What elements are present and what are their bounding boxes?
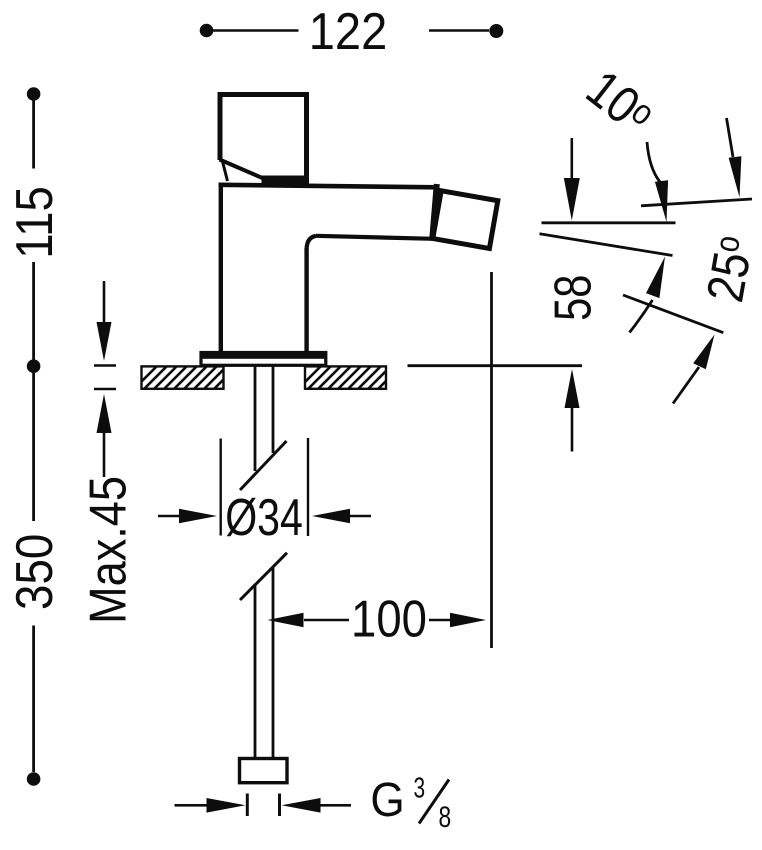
svg-text:G: G	[370, 772, 404, 826]
left dimension chain: segment above 115	[32, 101, 35, 169]
faucet spout end edge	[432, 184, 437, 240]
dimension 122 top: right leader line	[429, 29, 489, 32]
thread label denominator 8	[438, 800, 451, 834]
horizontal datum line at spout tip	[542, 221, 676, 224]
dimension 58: up arrow stem	[571, 408, 574, 452]
angle 10 arc leader	[647, 142, 660, 182]
dimension O34: right arrowhead	[312, 509, 350, 524]
faucet handle outline	[220, 95, 307, 181]
faucet base flange thick top bar	[202, 352, 325, 359]
pipe break slash upper	[240, 441, 287, 490]
dimension 122 top: right dot	[489, 24, 503, 38]
svg-text:350: 350	[7, 534, 64, 610]
dimension G3/8: left line	[175, 804, 208, 807]
dimension G3/8: right line	[320, 804, 351, 807]
dimension G3/8: right tick	[278, 794, 281, 817]
faucet handle lever inner line	[223, 162, 228, 182]
countertop hatched section left	[142, 366, 224, 388]
faucet outlet square	[433, 191, 498, 249]
dimension O34: left arrowhead	[179, 509, 217, 524]
faucet handle bottom thick bar	[262, 176, 310, 184]
svg-text:3: 3	[413, 772, 425, 804]
dimension 58: down arrowhead	[564, 178, 580, 221]
dimension 58: down arrow stem	[570, 138, 573, 180]
svg-text:Max.45: Max.45	[80, 476, 138, 624]
dimension O34: right extension line	[307, 438, 309, 536]
dimension 115 label	[6, 186, 63, 259]
Max.45 label	[80, 476, 138, 624]
angle 25 label	[696, 232, 762, 306]
vertical reference line from spout	[490, 272, 493, 648]
faucet spout bottom edge	[316, 236, 434, 239]
dimension 122 top: left leader line	[213, 29, 299, 32]
supply pipe right line lower segment	[272, 567, 275, 759]
Max.45 dimension: up arrow stem	[103, 433, 106, 477]
svg-text:Ø34: Ø34	[225, 488, 303, 546]
faucet spout corner curve	[307, 236, 316, 249]
svg-text:122: 122	[309, 2, 388, 61]
dimension G3/8: right arrowhead	[282, 798, 321, 813]
thread label numerator 3	[413, 772, 425, 804]
dimension 122 top: left dot	[200, 24, 214, 38]
dimension O34: value label	[225, 488, 303, 546]
supply pipe right line upper segment	[272, 366, 275, 454]
dimension 100: right arrowhead	[450, 613, 486, 628]
Max.45 dimension: down arrowhead	[97, 322, 112, 361]
faucet body top edge	[219, 185, 438, 188]
dimension 100: left arrowhead	[268, 613, 304, 628]
angle 25 lower arrowhead	[693, 335, 714, 370]
svg-text:58: 58	[543, 275, 602, 321]
faucet body right edge	[304, 248, 308, 352]
dimension 100: right line	[429, 619, 451, 622]
svg-text:115: 115	[6, 186, 63, 259]
dimension 100: left line	[304, 619, 349, 622]
left dimension chain: bottom dot	[27, 772, 41, 786]
svg-text:8: 8	[438, 800, 451, 834]
left dimension chain: segment above 350	[32, 373, 35, 521]
supply pipe left line upper segment	[254, 366, 257, 472]
dimension 58: value label	[543, 275, 602, 321]
slanted spout axis line	[540, 234, 673, 256]
angle 25 arc arrowhead	[646, 257, 665, 299]
thread label fraction slash	[419, 780, 449, 824]
upper right leader arrowhead	[729, 156, 742, 197]
angle 10 arrowhead	[655, 180, 668, 222]
dimension O34: left line	[158, 515, 180, 518]
pipe break slash lower	[240, 553, 287, 600]
angle 10 label	[576, 59, 664, 146]
dimension O34: right line	[348, 515, 371, 518]
upper right leader stem	[727, 118, 734, 157]
Max.45 dimension: upper tick	[94, 364, 116, 367]
angle 25 lower arrow stem	[673, 367, 699, 404]
supply pipe left line lower segment	[254, 585, 257, 759]
dimension G3/8: left tick	[246, 794, 249, 817]
dimension 58: up arrowhead	[565, 369, 580, 408]
left dimension chain: middle dot	[27, 359, 41, 373]
dimension O34: left extension line	[219, 439, 221, 536]
Max.45 dimension: up arrowhead	[97, 394, 112, 433]
thread label G	[370, 772, 404, 826]
faucet body left edge	[219, 183, 223, 352]
dimension 122 top: value label	[309, 2, 388, 61]
svg-text:100: 100	[351, 591, 427, 648]
faucet base flange outline	[201, 353, 326, 366]
left dimension chain: segment below 115	[32, 262, 35, 360]
Max.45 dimension: lower tick	[94, 388, 116, 391]
deck surface line right	[408, 364, 583, 367]
angle 25 reference line	[623, 295, 723, 333]
dimension 100: value label	[351, 591, 427, 648]
countertop hatched section right	[305, 366, 386, 388]
upper right reference line	[641, 199, 752, 206]
left dimension chain: top dot	[27, 87, 41, 101]
dimension G3/8: left arrowhead	[207, 798, 246, 813]
angle 25 arc leader	[630, 300, 653, 333]
faucet handle lever diagonal	[220, 160, 268, 181]
pipe end fitting	[240, 759, 288, 783]
left dimension chain: segment below 350	[32, 626, 35, 773]
Max.45 dimension: down arrow stem	[103, 281, 106, 326]
dimension 350 label	[7, 534, 64, 610]
